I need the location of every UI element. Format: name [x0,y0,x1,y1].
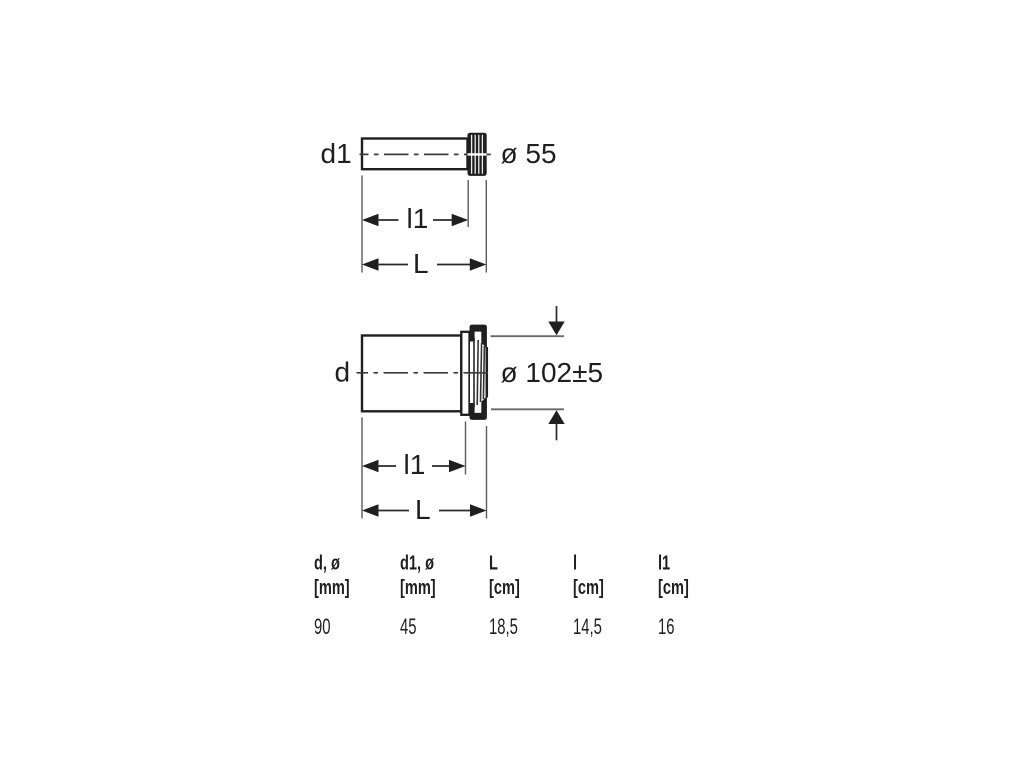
svg-text:l1: l1 [658,551,670,574]
table column d1 [400,551,436,640]
svg-text:L: L [415,494,431,525]
diameter arrow down [548,306,564,335]
table column l [573,551,604,640]
dimension l1 middle [362,449,466,480]
svg-text:d: d [335,357,351,388]
extension line inner right top [467,180,469,227]
gasket cone [474,338,487,407]
centerline top pipe [360,153,491,155]
dimension L middle [362,494,487,525]
svg-text:14,5: 14,5 [573,615,602,640]
table column L [489,551,520,640]
svg-text:l1: l1 [407,203,429,234]
svg-text:l: l [573,551,577,574]
svg-text:d1, ø: d1, ø [400,551,434,574]
svg-text:l1: l1 [404,449,426,480]
table column l1 [658,551,689,640]
table column d [314,551,350,640]
svg-text:[cm]: [cm] [489,576,520,599]
gasket top hook [470,325,487,349]
svg-text:90: 90 [314,615,331,640]
diameter reference line bottom [491,408,564,410]
extension line outer right middle [486,426,488,519]
pipe body d [362,336,461,412]
pipe body d1 [362,139,468,170]
svg-text:L: L [413,248,429,279]
centerline middle pipe [357,372,492,374]
svg-text:[cm]: [cm] [573,576,604,599]
svg-text:45: 45 [400,615,417,640]
dimension l1 top [362,203,468,234]
svg-text:[mm]: [mm] [400,576,436,599]
svg-text:L: L [489,551,498,574]
svg-text:d1: d1 [321,138,352,169]
label diameter 55 [501,138,557,169]
extension line left middle [361,417,363,518]
label d1 [321,138,352,169]
dimension L top [362,248,486,279]
threaded end top pipe [468,133,491,176]
svg-text:d, ø: d, ø [314,551,340,574]
extension line inner right middle [465,422,467,475]
label d [335,357,351,388]
label diameter 102 plus-minus 5 [501,357,604,388]
extension line outer right top [485,180,487,273]
diameter arrow up [548,410,564,440]
svg-text:ø 55: ø 55 [501,138,557,169]
svg-text:18,5: 18,5 [489,615,518,640]
svg-text:16: 16 [658,615,675,640]
extension line left top [361,176,363,273]
gasket bottom hook [470,396,487,420]
gasket body white [470,330,487,416]
svg-text:ø 102±5: ø 102±5 [501,357,604,388]
svg-text:[mm]: [mm] [314,576,350,599]
diameter reference line top [491,335,565,337]
sleeve collar [461,332,469,415]
svg-text:[cm]: [cm] [658,576,689,599]
